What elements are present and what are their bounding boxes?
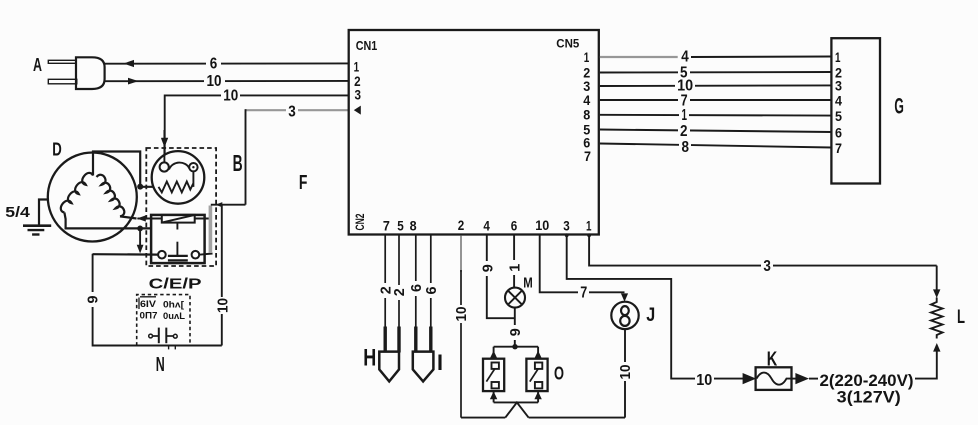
svg-text:A: A <box>33 55 42 75</box>
svg-text:5/4: 5/4 <box>5 204 30 221</box>
svg-text:7: 7 <box>835 140 842 156</box>
svg-text:C/E/P: C/E/P <box>149 276 202 293</box>
svg-text:6: 6 <box>511 217 518 233</box>
svg-text:I: I <box>437 350 443 375</box>
svg-text:B: B <box>233 150 243 176</box>
svg-text:M: M <box>523 275 533 292</box>
svg-text:1: 1 <box>506 264 523 272</box>
svg-text:1: 1 <box>682 107 688 124</box>
svg-text:5: 5 <box>835 108 842 124</box>
svg-text:1: 1 <box>584 49 590 65</box>
svg-text:G: G <box>894 94 904 119</box>
svg-text:4: 4 <box>681 48 689 65</box>
svg-text:8: 8 <box>682 139 690 156</box>
svg-text:3: 3 <box>563 217 570 233</box>
svg-text:K: K <box>767 348 778 370</box>
svg-text:6: 6 <box>423 287 440 295</box>
svg-text:7: 7 <box>383 217 390 233</box>
svg-text:O: O <box>554 364 564 384</box>
svg-text:N: N <box>156 354 165 376</box>
svg-text:10: 10 <box>223 88 238 105</box>
svg-text:6: 6 <box>210 55 218 72</box>
svg-text:10: 10 <box>453 307 470 322</box>
svg-text:3: 3 <box>835 78 842 94</box>
svg-text:2: 2 <box>391 288 408 296</box>
svg-text:2: 2 <box>680 123 688 140</box>
svg-text:4: 4 <box>835 92 842 108</box>
svg-text:9: 9 <box>479 264 496 272</box>
svg-text:3: 3 <box>288 103 296 120</box>
svg-text:7: 7 <box>584 148 591 164</box>
svg-text:10: 10 <box>696 372 712 389</box>
svg-text:CN2: CN2 <box>353 213 367 230</box>
svg-text:3(127V): 3(127V) <box>837 388 901 407</box>
svg-text:1: 1 <box>586 217 592 233</box>
svg-text:1: 1 <box>835 49 841 65</box>
svg-text:6IV: 6IV <box>140 299 157 310</box>
svg-text:D: D <box>52 140 62 160</box>
svg-text:6: 6 <box>835 125 842 141</box>
svg-text:4: 4 <box>483 217 490 233</box>
svg-text:0uʌL: 0uʌL <box>163 311 185 322</box>
svg-text:3: 3 <box>355 87 362 103</box>
svg-text:10: 10 <box>617 365 634 380</box>
svg-text:3: 3 <box>763 258 771 275</box>
svg-text:10: 10 <box>207 73 222 90</box>
svg-text:9: 9 <box>85 296 102 304</box>
svg-text:10: 10 <box>535 217 549 233</box>
svg-text:F: F <box>299 172 308 194</box>
svg-text:5: 5 <box>397 217 404 233</box>
svg-text:2: 2 <box>458 217 465 233</box>
svg-text:8: 8 <box>410 217 417 233</box>
svg-text:CN5: CN5 <box>556 37 579 51</box>
svg-text:7: 7 <box>580 285 587 302</box>
svg-text:0П7: 0П7 <box>140 311 158 322</box>
svg-text:10: 10 <box>215 298 232 313</box>
svg-text:8: 8 <box>583 107 590 123</box>
svg-text:4: 4 <box>583 92 590 108</box>
svg-text:CN1: CN1 <box>356 38 378 53</box>
svg-text:L: L <box>957 307 965 328</box>
svg-text:J: J <box>646 305 655 326</box>
svg-text:H: H <box>363 344 376 371</box>
svg-text:9: 9 <box>507 328 524 336</box>
svg-text:0hʌ[: 0hʌ[ <box>163 300 185 311</box>
